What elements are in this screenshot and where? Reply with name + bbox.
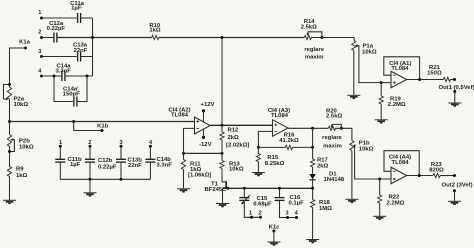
- node 3 (K1a contact): [38, 49, 43, 58]
- svg-text:2kΩ: 2kΩ: [317, 164, 329, 170]
- node C16 top junction: [278, 187, 281, 190]
- wire node3 to C13a: [42, 56, 77, 58]
- label reglare maxim (R14): [304, 47, 324, 61]
- capacitor C15 0.68uF (adjustable): [239, 188, 272, 217]
- wire A4 feedback box: [384, 151, 419, 176]
- svg-text:3.3nF: 3.3nF: [157, 162, 173, 168]
- potentiometer P1b 10k: [350, 141, 391, 199]
- resistor R11 1k: [181, 153, 211, 188]
- svg-text:10kΩ: 10kΩ: [359, 147, 374, 153]
- wire to ground (b-bank): [89, 179, 91, 192]
- svg-text:1MΩ: 1MΩ: [319, 206, 332, 212]
- svg-text:R9: R9: [16, 166, 24, 172]
- svg-text:1kΩ: 1kΩ: [16, 173, 28, 179]
- resistor R21 150: [427, 65, 450, 81]
- wire R20 to P1b: [335, 128, 352, 140]
- svg-text:3: 3: [286, 211, 289, 217]
- capacitor C13b: [116, 146, 142, 179]
- resistor R9 1k: [7, 166, 27, 200]
- wire R23 to Out2: [440, 175, 455, 177]
- wire AGC node: [223, 187, 313, 189]
- svg-text:10kΩ: 10kΩ: [229, 167, 244, 173]
- wire T1 source to ground: [222, 188, 224, 203]
- svg-text:P1b: P1b: [359, 141, 370, 147]
- capacitor C16 0.1uF: [275, 188, 305, 217]
- svg-text:1: 1: [249, 211, 252, 217]
- wire b-bank common bottom: [60, 178, 150, 180]
- wire rail (top junction down to A2 out): [221, 38, 223, 126]
- svg-text:8.25kΩ: 8.25kΩ: [265, 161, 285, 167]
- svg-text:0.68µF: 0.68µF: [253, 202, 272, 208]
- node Out2 ground terminal: [453, 189, 456, 192]
- switch K1a wiper: [10, 39, 31, 84]
- svg-text:K1c: K1c: [269, 224, 281, 230]
- svg-text:2kΩ: 2kΩ: [228, 135, 240, 141]
- svg-text:22nF: 22nF: [128, 163, 142, 169]
- node R11 top junction: [182, 152, 185, 155]
- node C16 terminal 4: [295, 211, 299, 220]
- node 1 (K1b contact): [59, 140, 62, 148]
- svg-text:maxim: maxim: [305, 55, 324, 61]
- svg-text:-12V: -12V: [199, 142, 212, 148]
- node A3 out rail / R16 junction: [311, 146, 314, 149]
- potentiometer P2a 10k: [4, 83, 29, 122]
- node C14a' right junction: [86, 75, 89, 78]
- resistor R22 2.2M: [378, 179, 405, 216]
- node 4 (K1a contact): [38, 68, 43, 77]
- node A4 feedback junction: [418, 174, 421, 177]
- svg-text:2.2MΩ: 2.2MΩ: [387, 201, 405, 207]
- wire C13a to bus: [81, 56, 93, 58]
- resistor R18 1M: [311, 188, 333, 239]
- node C16 terminal 3: [286, 211, 289, 220]
- svg-text:10kΩ: 10kΩ: [14, 102, 29, 108]
- resistor R13 10k: [220, 153, 244, 182]
- node C15 top junction: [243, 187, 246, 190]
- node Out2 terminal: [453, 174, 456, 177]
- wire A2 inverting input loop: [184, 128, 195, 153]
- ground (R11): [177, 189, 190, 192]
- -12V supply pin: [199, 129, 212, 148]
- svg-text:2: 2: [38, 30, 41, 36]
- svg-text:150Ω: 150Ω: [427, 70, 442, 76]
- ground (R22): [373, 216, 386, 219]
- resistor R15 8.25k: [256, 147, 284, 172]
- svg-text:1µF: 1µF: [71, 6, 82, 12]
- resistor R17 2k: [311, 147, 329, 173]
- capacitor C11a: [70, 1, 84, 23]
- wire R10 to R14: [159, 37, 304, 39]
- ground (left rail): [3, 200, 16, 203]
- svg-text:TL084: TL084: [391, 160, 409, 166]
- node junction rail top: [221, 36, 224, 39]
- wire Out2 ground stub: [454, 191, 456, 201]
- svg-text:reglare: reglare: [304, 47, 324, 53]
- svg-text:3: 3: [38, 49, 41, 55]
- node bus junction: [91, 36, 94, 39]
- svg-text:41.2kΩ: 41.2kΩ: [279, 138, 299, 144]
- switch K1b wiper: [74, 122, 109, 133]
- svg-text:2.2MΩ: 2.2MΩ: [388, 102, 406, 108]
- wire A3 feedback node: [258, 146, 285, 148]
- svg-text:K1b: K1b: [97, 124, 109, 130]
- diode D1 1N4148: [309, 172, 344, 189]
- wire A3 output: [288, 127, 328, 129]
- resistor R12 2k: [220, 125, 250, 153]
- node 3 (K1b contact): [119, 140, 122, 148]
- wire A3 inverting input loop: [258, 131, 272, 147]
- wire Out1 ground stub: [454, 92, 456, 103]
- op-amp U1 CI4 (A2) TL084: [168, 108, 210, 134]
- resistor R19 2.2M: [379, 83, 406, 120]
- resistor R23 820: [429, 162, 444, 177]
- svg-text:3.3nF: 3.3nF: [56, 69, 72, 75]
- wire main top (C12a to R10): [57, 37, 152, 39]
- svg-text:1N4148: 1N4148: [324, 177, 345, 183]
- svg-text:2.5kΩ: 2.5kΩ: [326, 113, 342, 119]
- capacitor C12a: [47, 21, 66, 42]
- potentiometer P1a 10k: [352, 38, 391, 95]
- svg-text:2.5kΩ: 2.5kΩ: [301, 24, 317, 30]
- svg-text:K1a: K1a: [19, 39, 31, 45]
- node C15 terminal 1: [249, 211, 253, 219]
- wire R14 to P1a corner: [311, 37, 354, 39]
- capacitor C14b: [145, 146, 172, 179]
- wire bus vertical: [92, 18, 94, 76]
- ground (Out1): [448, 103, 461, 106]
- svg-text:820Ω: 820Ω: [429, 168, 444, 174]
- resistor R16 41.2k: [279, 133, 299, 150]
- wire R21 to Out1: [450, 79, 454, 81]
- wire node2 to C12a: [42, 37, 54, 39]
- node C13b bottom junction: [120, 178, 123, 181]
- wire R16 to A3 output rail: [293, 146, 313, 148]
- svg-text:maxim: maxim: [323, 144, 342, 150]
- trimmer R14 2.5k: [301, 19, 324, 40]
- node C12b bottom junction: [89, 178, 92, 181]
- node C14a' left junction: [53, 75, 56, 78]
- ground (Out2): [448, 201, 461, 204]
- node 2 (K1b contact): [88, 140, 91, 148]
- wire A1 feedback box: [384, 57, 420, 80]
- svg-text:1µF: 1µF: [70, 162, 81, 168]
- wire A4 output: [407, 175, 433, 177]
- node Out1 ground terminal: [453, 90, 456, 93]
- ground (R19): [375, 120, 388, 123]
- node K1b branch junction: [72, 120, 75, 123]
- node 2 (K1a contact): [38, 30, 43, 39]
- resistor R10: [149, 23, 161, 40]
- node R15/R16 junction: [257, 146, 260, 149]
- ground (P1b): [345, 199, 358, 202]
- capacitor C13a: [73, 43, 88, 62]
- svg-text:1: 1: [38, 10, 41, 16]
- capacitor C14a' (trimmer 150pF) loop: [54, 76, 87, 107]
- svg-text:0.22µF: 0.22µF: [47, 26, 66, 32]
- potentiometer P2b 10k: [7, 122, 33, 167]
- capacitor C12b: [85, 146, 117, 179]
- svg-text:[2.02kΩ]: [2.02kΩ]: [226, 143, 249, 149]
- node A1 feedback junction: [418, 78, 421, 81]
- node A3 output junction: [311, 127, 314, 130]
- wire C14a to bus: [65, 75, 93, 77]
- svg-text:Out2 (3Vef): Out2 (3Vef): [442, 182, 473, 188]
- node 4 (K1b contact): [149, 140, 153, 148]
- wire bottom main (left rail to A2 +): [10, 121, 195, 123]
- svg-text:TL084: TL084: [391, 66, 409, 72]
- svg-text:C12b: C12b: [98, 158, 113, 164]
- node A2 output rail junction: [221, 124, 224, 127]
- wire node4 to C14a: [42, 75, 62, 77]
- wire A2 output to A3 input: [210, 124, 272, 126]
- node inverting A2 rail junction: [221, 152, 224, 155]
- wire A2 inverting node: [184, 152, 223, 154]
- wire A1 output: [407, 79, 444, 81]
- label reglare maxim (R20): [322, 135, 342, 150]
- svg-text:reglare: reglare: [322, 135, 342, 141]
- node AGC rail junction: [311, 187, 314, 190]
- +12V supply pin: [201, 102, 215, 121]
- ground (K1c): [267, 242, 280, 245]
- capacitor C14a: [56, 63, 72, 81]
- switch K1c wiper: [269, 224, 281, 241]
- svg-text:10kΩ: 10kΩ: [19, 145, 34, 151]
- trimmer R20 2.5k: [326, 108, 343, 130]
- node left rail bottom junction: [8, 120, 11, 123]
- svg-text:TL084: TL084: [271, 113, 289, 119]
- op-amp U2 CI4 (A3) TL084: [268, 108, 290, 136]
- svg-text:R12: R12: [228, 128, 240, 134]
- svg-text:0.22µF: 0.22µF: [98, 164, 117, 170]
- ground (R15): [252, 173, 265, 176]
- ground (P1a): [347, 95, 360, 98]
- svg-text:2: 2: [259, 211, 262, 217]
- svg-text:[1.06kΩ]: [1.06kΩ]: [188, 172, 211, 178]
- svg-text:1kΩ: 1kΩ: [149, 28, 161, 34]
- node C15 terminal 2: [259, 211, 262, 219]
- wire C11a to bus: [81, 17, 93, 19]
- transistor Q1 T1 BF245C: [205, 181, 230, 193]
- svg-text:Out1 (0.5Vef): Out1 (0.5Vef): [439, 85, 474, 91]
- svg-text:0.1µF: 0.1µF: [289, 201, 305, 207]
- svg-text:10kΩ: 10kΩ: [362, 49, 377, 55]
- node Out1 terminal: [453, 78, 456, 81]
- ground (T1): [216, 204, 229, 207]
- node R22 top junction: [378, 178, 381, 181]
- svg-text:+12V: +12V: [201, 102, 215, 108]
- svg-text:TL084: TL084: [171, 113, 189, 119]
- ground (b-bank): [84, 193, 97, 196]
- wire rail A3out to R16 node: [312, 128, 314, 147]
- node 1 (K1a contact): [38, 10, 43, 19]
- ground (R18): [306, 240, 319, 243]
- svg-text:R17: R17: [317, 158, 329, 164]
- wire node1 to C11a: [42, 17, 77, 19]
- node R19 top junction: [380, 81, 383, 84]
- op-amp U4 CI4 (A4) TL084: [389, 155, 411, 184]
- svg-text:P2b: P2b: [19, 138, 30, 144]
- op-amp U3 CI4 (A1) TL084: [389, 61, 411, 88]
- capacitor C11b: [55, 146, 82, 179]
